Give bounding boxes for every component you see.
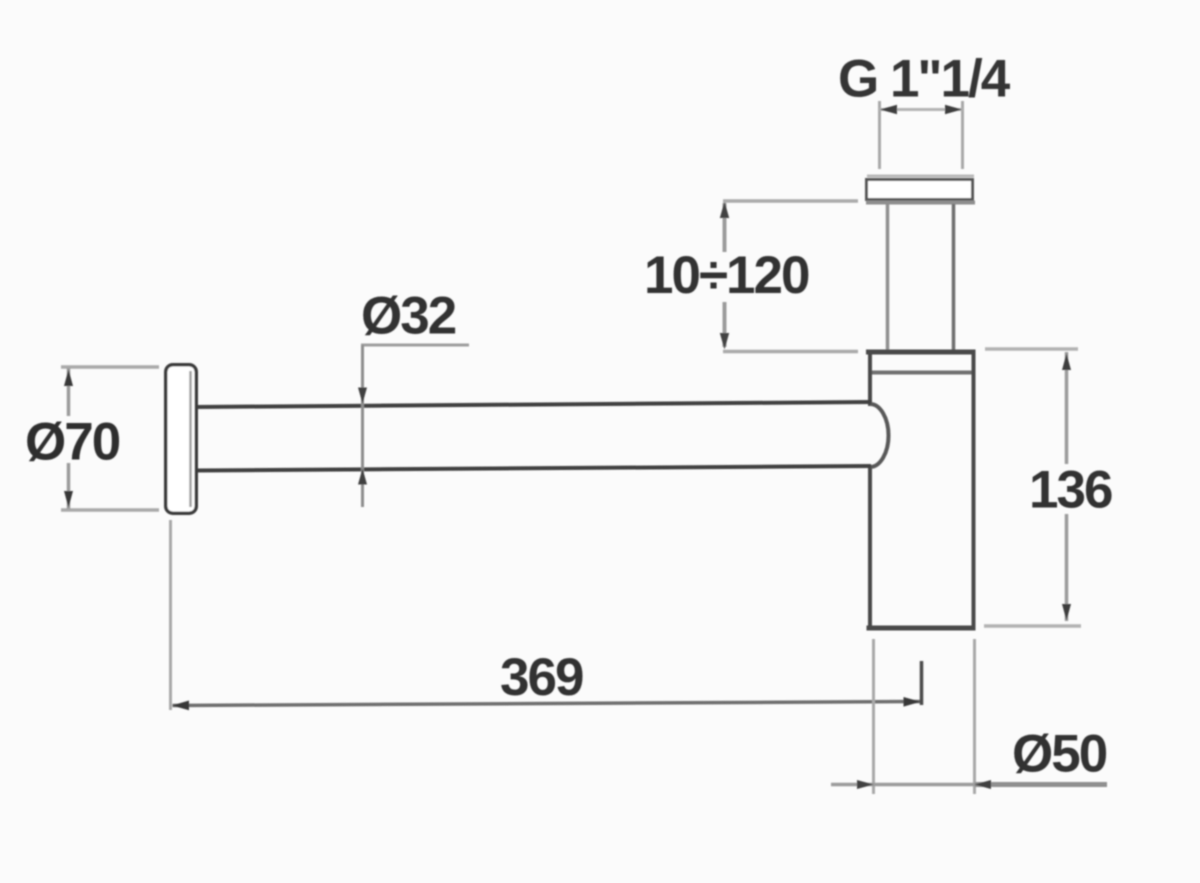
136 extension top bbox=[985, 347, 1078, 351]
G dim extension line right bbox=[961, 101, 964, 169]
svg-text:Ø70: Ø70 bbox=[25, 413, 120, 472]
Ø50 extension right bbox=[973, 639, 976, 794]
body left wall lower bbox=[868, 466, 872, 628]
tail pipe right wall bbox=[952, 204, 956, 350]
Ø32 vertical line bbox=[361, 345, 364, 507]
136 dim line lower bbox=[1065, 514, 1069, 621]
10÷120 dim line lower bbox=[723, 302, 727, 347]
136 arrow up bbox=[1062, 354, 1071, 371]
svg-text:G 1"1/4: G 1"1/4 bbox=[838, 50, 1011, 109]
Ø70 dim line upper bbox=[67, 368, 71, 416]
body left wall upper bbox=[868, 352, 872, 406]
G dim arrow right bbox=[945, 105, 962, 114]
svg-text:Ø32: Ø32 bbox=[361, 287, 456, 346]
top flange bottom bar bbox=[866, 201, 975, 205]
369 right tick bbox=[920, 661, 924, 705]
369 extension left bbox=[169, 520, 172, 710]
svg-text:10÷120: 10÷120 bbox=[644, 246, 809, 305]
136 dim line upper bbox=[1065, 352, 1069, 464]
Ø50 dim line bbox=[831, 783, 975, 787]
tail pipe left wall bbox=[886, 204, 890, 350]
136 arrow down bbox=[1062, 604, 1071, 621]
Ø32 leader line bbox=[361, 344, 469, 347]
wall flange bbox=[166, 365, 197, 514]
G dim arrow left bbox=[880, 105, 897, 114]
Ø50 dim line right segment bbox=[975, 782, 1107, 787]
svg-text:369: 369 bbox=[500, 648, 583, 707]
Ø50 extension left bbox=[872, 639, 875, 794]
136 extension bottom bbox=[984, 624, 1081, 628]
Ø70 extension bottom bbox=[61, 508, 159, 512]
body bottom edge bbox=[867, 626, 976, 631]
G dim extension line left bbox=[878, 101, 881, 169]
top flange highlight bbox=[867, 175, 974, 178]
369 arrow left bbox=[172, 701, 189, 711]
svg-text:136: 136 bbox=[1029, 461, 1112, 520]
Ø32 arrow upper bbox=[358, 388, 367, 404]
top flange nut bbox=[867, 180, 973, 200]
Ø70 arrow down bbox=[64, 491, 73, 508]
body collar line bbox=[870, 371, 972, 375]
369 arrow right bbox=[904, 697, 921, 707]
Ø32 arrow lower bbox=[358, 469, 367, 485]
369 dim line bbox=[173, 702, 922, 706]
Ø50 arrow right bbox=[975, 780, 992, 789]
Ø70 extension top bbox=[61, 365, 159, 369]
svg-text:Ø50: Ø50 bbox=[1012, 725, 1107, 784]
10÷120 extension top bbox=[723, 199, 858, 203]
pipe-body junction arc bbox=[870, 404, 889, 467]
body right wall bbox=[972, 352, 976, 628]
horizontal pipe top wall bbox=[196, 402, 871, 407]
G dim line bbox=[879, 108, 963, 111]
body top edge bbox=[866, 350, 976, 355]
10÷120 extension bottom bbox=[723, 350, 858, 354]
Ø50 arrow left bbox=[857, 780, 874, 789]
Ø70 arrow up bbox=[64, 370, 73, 387]
Ø70 dim line lower bbox=[67, 463, 71, 509]
horizontal pipe bottom wall bbox=[196, 466, 871, 471]
10÷120 dim line upper bbox=[723, 203, 727, 252]
10÷120 arrow down bbox=[720, 333, 729, 350]
wall flange inner bevel bbox=[189, 371, 192, 507]
10÷120 arrow up bbox=[720, 202, 729, 219]
